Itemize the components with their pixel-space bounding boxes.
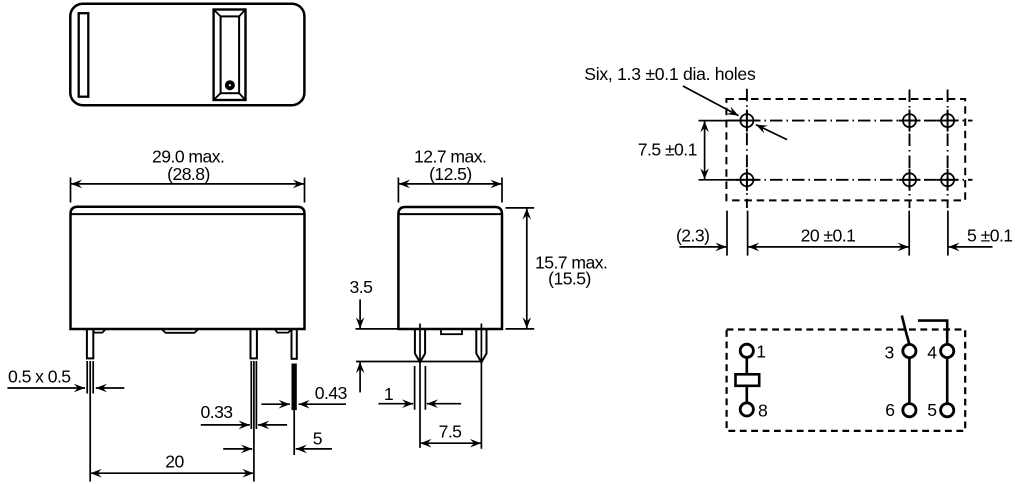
- dim 5 (front): right arrow: [296, 448, 332, 450]
- dim 7.5±0.1: dimension line with arrows: [704, 121, 706, 179]
- schematic: terminal 1 circle: [740, 344, 753, 357]
- dim 15.7: top extension line: [506, 207, 535, 209]
- dim 0.43: left arrow: [261, 403, 290, 405]
- side view: left pin outline: [415, 329, 425, 362]
- dim 3.5: pin-tip level extension line: [356, 361, 482, 363]
- svg-text:(2.3): (2.3): [676, 226, 709, 246]
- dim 29.0: extension lines: [71, 178, 305, 203]
- dim 15.7: dimension line with arrows: [526, 208, 528, 328]
- svg-text:4: 4: [927, 342, 937, 362]
- dim 5±0.1: arrow: [948, 246, 992, 248]
- hole layout: row center line top: [726, 120, 973, 122]
- dim 0.43: right arrow: [299, 403, 347, 405]
- svg-text:Six, 1.3 ±0.1 dia. holes: Six, 1.3 ±0.1 dia. holes: [584, 64, 756, 84]
- side view: bottom center tab: [441, 329, 462, 334]
- dim 7.5±0.1: bottom extension line: [699, 179, 732, 181]
- svg-text:3: 3: [885, 342, 895, 362]
- schematic: wire 3-6: [908, 358, 911, 404]
- hole bottom-middle: [903, 173, 916, 186]
- svg-text:(28.8): (28.8): [167, 164, 210, 184]
- side view: right pin outline: [476, 329, 486, 362]
- dim 0.5x0.5: right arrow: [96, 387, 125, 389]
- dim 3.5: case-bottom extension line: [356, 328, 398, 330]
- schematic: movable contact armature: [902, 316, 910, 345]
- dim 12.7: extension lines: [398, 178, 502, 203]
- schematic: terminal 3 circle: [903, 344, 916, 357]
- front view: right pin center extension line: [293, 410, 295, 455]
- svg-text:(15.5): (15.5): [548, 269, 591, 289]
- schematic: coil box: [736, 374, 760, 386]
- schematic: wire 4-5: [946, 358, 949, 404]
- bottom dims: extension line left column: [747, 211, 749, 256]
- hole layout: column center line right: [947, 90, 949, 209]
- svg-text:20 ±0.1: 20 ±0.1: [801, 226, 856, 246]
- front view: bottom tab center: [162, 329, 199, 333]
- dim 5 (front): left arrow: [223, 448, 252, 450]
- dim 1: left arrow: [378, 403, 413, 405]
- schematic: fixed contact wire: [918, 321, 947, 345]
- side view: left pin edge extension lines: [415, 366, 426, 410]
- side view: right pin center line: [480, 324, 482, 449]
- svg-text:6: 6: [885, 400, 895, 420]
- dim 3.5: lower arrow: [359, 362, 361, 393]
- dim (2.3): arrow: [679, 246, 726, 248]
- front view: right pin standoff: [292, 329, 297, 359]
- dim 3.5: upper arrow: [359, 299, 361, 328]
- front view: pin 1 standoff: [87, 329, 93, 358]
- svg-text:5 ±0.1: 5 ±0.1: [967, 226, 1013, 246]
- svg-text:1: 1: [384, 384, 393, 404]
- dim 20±0.1: dimension line with arrows: [748, 246, 909, 248]
- bottom dims: extension line board edge: [726, 211, 728, 256]
- hole layout: column center line middle: [909, 90, 911, 209]
- side view: lid line: [398, 213, 502, 215]
- schematic: terminal 6 circle: [903, 404, 916, 417]
- front view: right pin thick lead: [292, 364, 297, 411]
- svg-text:7.5 ±0.1: 7.5 ±0.1: [638, 139, 697, 159]
- front view: bottom tab left: [93, 329, 105, 333]
- dim 7.5±0.1: top extension line: [699, 120, 739, 122]
- svg-text:0.33: 0.33: [201, 402, 234, 422]
- hole layout: dashed board outline: [726, 99, 965, 200]
- front view: bottom tab right: [275, 329, 292, 333]
- svg-text:5: 5: [927, 400, 937, 420]
- dim 0.33: left arrow: [201, 424, 250, 426]
- hole top-left: [740, 114, 753, 127]
- front view: lid line: [71, 213, 305, 215]
- dim 29.0: dimension line with arrows: [71, 183, 304, 185]
- schematic: terminal 5 circle: [941, 404, 954, 417]
- schematic: wire coil top: [745, 358, 748, 375]
- svg-text:0.5 x 0.5: 0.5 x 0.5: [8, 367, 71, 387]
- bottom dims: extension line middle column: [908, 211, 910, 256]
- schematic: dashed enclosure: [727, 330, 966, 431]
- top view: left slot: [79, 13, 89, 97]
- dim 1: right arrow: [427, 403, 461, 405]
- side view: left pin center line: [419, 324, 421, 448]
- dim 20: dimension line with arrows: [91, 472, 254, 474]
- schematic: terminal 8 circle: [740, 403, 753, 416]
- top view: relay case outline: [70, 4, 304, 106]
- holes note second leader arrow: [756, 125, 787, 140]
- dim 15.7: bottom extension line: [506, 328, 535, 330]
- dim 0.33: right arrow: [258, 424, 287, 426]
- hole layout: row center line bottom: [726, 179, 973, 181]
- front view: middle pin center extension line: [253, 361, 255, 482]
- hole center cross marks: [736, 110, 959, 191]
- front view: case body: [71, 207, 305, 329]
- dim 7.5 (side): dimension line with arrows: [420, 442, 481, 444]
- hole top-right: [941, 114, 954, 127]
- svg-text:0.43: 0.43: [315, 383, 348, 403]
- front view: pin 1 center extension line: [89, 361, 91, 482]
- svg-text:7.5: 7.5: [439, 422, 463, 442]
- svg-text:5: 5: [313, 428, 323, 448]
- side view: case body: [398, 207, 502, 329]
- top view: armature window inner frame: [221, 16, 240, 93]
- top view: bevel corner lines: [214, 10, 246, 101]
- hole layout: column center line left: [746, 89, 748, 208]
- holes note leader arrow: [683, 86, 739, 116]
- schematic: terminal 4 circle: [941, 344, 954, 357]
- hole top-middle: [903, 114, 916, 127]
- svg-text:3.5: 3.5: [350, 277, 374, 297]
- front view: pin 1 thin lead edges: [87, 361, 93, 394]
- svg-text:(12.5): (12.5): [429, 164, 472, 184]
- dim 12.7: dimension line with arrows: [399, 183, 502, 185]
- bottom dims: extension line right column: [947, 211, 949, 256]
- hole bottom-left: [740, 173, 753, 186]
- schematic: wire coil bottom: [745, 386, 748, 403]
- top view: indicator dot: [225, 80, 235, 90]
- top view: armature window outer frame: [214, 10, 246, 101]
- front view: middle pin thin lead edges: [251, 361, 256, 429]
- svg-text:1: 1: [756, 342, 765, 362]
- svg-text:8: 8: [758, 400, 768, 420]
- svg-text:20: 20: [165, 452, 184, 472]
- dim 0.5x0.5: left arrow: [7, 387, 85, 389]
- hole bottom-right: [941, 173, 954, 186]
- front view: middle pin standoff: [251, 329, 257, 358]
